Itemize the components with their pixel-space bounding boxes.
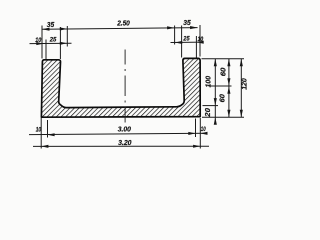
arrow row2 left b (tip x=67) [60,42,67,45]
ext line right flange inner x=181.6 [181,26,183,58]
svg-text:100: 100 [205,76,212,88]
ext x=47.5 (3.00 left) [47,120,49,138]
right side extension lines [202,59,245,125]
ext from web bottom right [202,116,244,118]
channel section outline with hatching [41,58,200,117]
svg-text:25: 25 [183,35,190,42]
line C top arrow up [240,59,243,67]
svg-text:60: 60 [221,68,228,77]
arrows top row [36,26,203,45]
line C bottom arrow down [240,110,243,118]
second row dim line left y=43.3 [30,42,72,44]
ext line right flange outer x=200 [199,25,201,57]
dim line B (60/60) x=228.9 [228,59,230,118]
bottom arrows [41,132,207,148]
ext mid-height tick [209,85,232,87]
line B bottom arrow down [227,110,230,118]
bottom extension lines [29,118,209,149]
arrow row2 right b (tip x=196.5) [197,41,204,44]
ext x=200.3 bottom-right outer [199,118,201,149]
line A top arrow up [214,59,217,67]
svg-text:10: 10 [198,36,204,43]
arrow 10L inward (tip 47.5) [47,133,54,136]
line B top arrow up [227,59,230,67]
svg-text:2.50: 2.50 [116,21,130,28]
svg-text:35: 35 [47,22,55,29]
line B arrow down at mid [227,78,230,86]
thin line style group: extension lines top left [30,25,204,59]
svg-text:60: 60 [220,94,227,102]
dim line A (100/20) x=215.3 [214,59,216,125]
ext web top tick [203,105,219,107]
svg-text:35: 35 [183,20,191,27]
ext line 2.50 right end x=174.6 [174,26,176,45]
ext line right mirror x=196.4 [195,36,197,58]
svg-text:3.00: 3.00 [118,126,131,133]
ext x=195.5 (3.00 right) [195,119,197,138]
arrow 3.20 right (tip 200.3) [193,145,200,148]
svg-text:120: 120 [241,78,248,90]
ext x=41.2 bottom-left outer [40,118,42,149]
right side arrows [214,59,243,125]
arrow row2 right a (tip x=175) [175,41,182,44]
arrow 3.00 right (tip 195.5) [188,132,195,135]
ext line x=60.5 (left flange inner) [59,27,61,59]
svg-text:25: 25 [49,37,57,44]
dim line C (120) x=241.3 [240,59,242,118]
arrow 35R right [190,26,198,29]
svg-text:10: 10 [36,127,42,134]
line A arrow down at web top [214,98,217,106]
top dimension row line y=28.5 [42,28,198,30]
arrow 35L left [42,28,50,31]
second row dim line right y=42.3 [171,41,204,43]
arrow 3.20 left (tip 41.2) [41,145,48,148]
ext line x=46 (10/25 boundary left) [45,40,47,60]
dim line 3.20 row y=146 [33,145,209,147]
ext from flange top right [202,58,245,60]
svg-text:3.20: 3.20 [118,140,132,147]
line A arrow up at web bottom (outside below) [214,117,217,125]
arrow 2.50 right / 35R left pair [167,26,175,29]
svg-text:10: 10 [35,37,41,44]
ext line outer-left flange (x=42) [41,26,43,59]
centerline (vertical axis, dash-dot) [124,50,126,123]
line B arrow up from mid [227,86,230,94]
arrow 35L right / 2.50 left pair [60,27,68,30]
svg-text:10: 10 [201,126,206,133]
arrow 10R inward (tip 195.5->) outside right pointing left [200,132,207,135]
arrow row2 left a (tip x=43.5) [36,42,43,45]
dim line 3.00 row y=134.8 [29,133,207,134]
ext line x=67.5 (2.50 left end) [66,26,68,47]
svg-text:20: 20 [205,108,212,118]
